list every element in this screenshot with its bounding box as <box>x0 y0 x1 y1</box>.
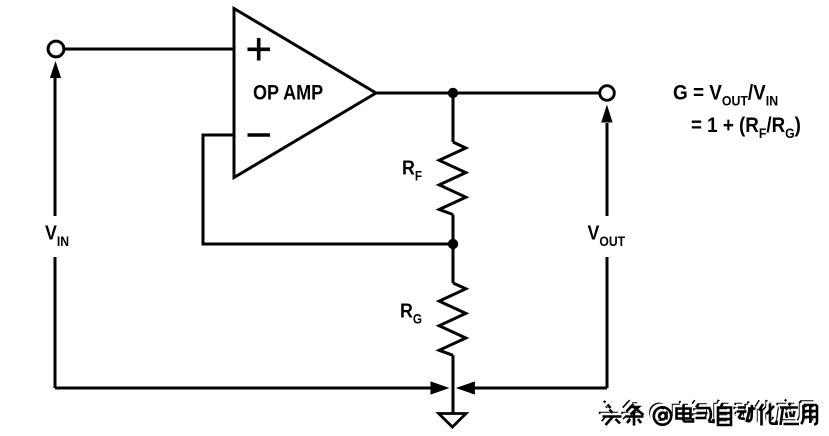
wire RG bottom stub to ground <box>452 355 455 413</box>
svg-text:VIN: VIN <box>45 222 69 249</box>
resistor RG <box>439 283 466 355</box>
svg-text:VOUT: VOUT <box>588 222 626 249</box>
wire VIN lower segment <box>54 257 57 388</box>
wire bottom right return <box>473 387 607 390</box>
wire input to op-amp + <box>64 48 234 51</box>
ground <box>439 414 466 428</box>
arrowhead VIN up <box>50 61 61 78</box>
input terminal circle <box>48 41 64 57</box>
wire VOUT upper segment <box>606 123 609 216</box>
svg-text:OP AMP: OP AMP <box>253 81 323 105</box>
svg-text:= 1 + (RF/RG): = 1 + (RF/RG) <box>691 114 801 141</box>
wire RF top stub <box>452 93 455 142</box>
svg-text:RG: RG <box>400 300 422 326</box>
wire feedback from - input to RF/RG node <box>203 135 453 244</box>
wire RF bottom stub <box>452 215 455 245</box>
wire RG top stub <box>452 244 455 283</box>
op-amp - input symbol <box>248 133 271 137</box>
wire VOUT lower segment <box>606 257 609 388</box>
node junction dot at output/RF <box>448 88 458 98</box>
op-amp U1 <box>234 9 376 178</box>
arrowhead into ground from left <box>431 381 450 394</box>
resistor RF <box>439 142 466 215</box>
op-amp + input symbol <box>248 38 271 61</box>
arrowhead into ground from right <box>456 381 475 394</box>
svg-text:RF: RF <box>402 157 422 183</box>
output terminal circle <box>600 86 615 101</box>
wire bottom left return <box>55 387 432 390</box>
svg-text:G = VOUT/VIN: G = VOUT/VIN <box>673 81 778 108</box>
wire VIN upper segment <box>54 76 57 216</box>
node junction dot feedback <box>448 239 458 249</box>
arrowhead VOUT up <box>601 105 612 123</box>
wire op-amp output <box>376 92 600 95</box>
